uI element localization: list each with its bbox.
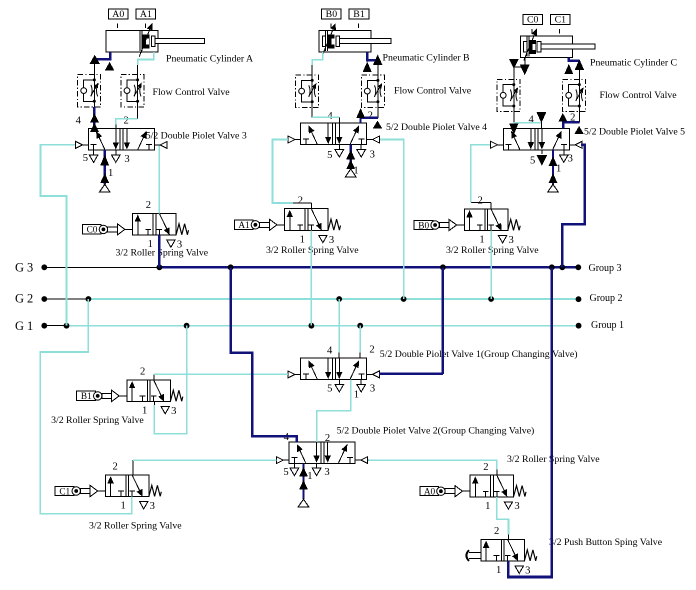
flow arrow V5 port4 1 [509,124,518,135]
label 3/2 Roller Spring Valve (C1) [89,521,182,532]
svg-text:3/2 Roller Spring Valve: 3/2 Roller Spring Valve [446,245,539,256]
wire G3 to push button port 1 [508,267,552,577]
svg-text:G 2: G 2 [15,291,33,305]
flow arrow cyl C right 2 [575,59,584,70]
valve V2 port 1 supply wire [302,463,304,499]
node G3 dots [41,264,581,270]
svg-text:Pneumatic Cylinder B: Pneumatic Cylinder B [383,53,471,64]
svg-text:3: 3 [329,235,334,246]
valve V4 compressed air source [345,169,356,177]
svg-text:1: 1 [307,471,312,482]
wire C0 port1 to G3 [158,235,160,267]
svg-text:3/2 Roller Spring Valve: 3/2 Roller Spring Valve [116,247,209,258]
valve V2 exhaust port 5 [290,463,299,475]
wire cylinder C right port to FCV [569,57,580,60]
svg-text:1: 1 [300,234,305,245]
svg-text:C1: C1 [555,15,567,26]
svg-text:4: 4 [327,346,333,357]
svg-text:1: 1 [496,565,501,576]
flow control valve A-left [78,75,101,107]
wire B1 port2 to V1 left pilot [154,374,288,380]
svg-text:2: 2 [325,433,330,444]
wire B0 port2 stub [490,202,492,209]
wire FCV A-right upper stub [137,65,139,75]
svg-text:4: 4 [76,115,82,126]
valve B1 port labels [140,367,176,417]
push button valve port labels [494,526,530,576]
valve V2 port 1 flow arrow 2 [299,480,308,489]
svg-text:3: 3 [171,406,176,417]
svg-text:5/2 Double Piolet Valve 4: 5/2 Double Piolet Valve 4 [386,122,487,133]
flow arrow cyl B corner 1 [363,62,372,72]
svg-text:Group 1: Group 1 [591,320,624,331]
wire V5 right pilot to G3 [562,145,585,267]
svg-text:5: 5 [327,150,332,161]
valve V5 compressed air source [548,184,559,192]
3/2 roller spring valve A1 [234,209,340,243]
label Group 3 [589,263,622,274]
flow arrow cyl A corner 1 [90,55,100,64]
5/2 double pilot valve V1 body [288,358,380,380]
valve V3 port 1 flow arrow 1 [100,155,109,166]
label Pneumatic Cylinder C [590,58,677,69]
5/2 double pilot valve V4 body [288,123,380,145]
svg-text:G 3: G 3 [15,260,33,274]
valve V3 exhaust port 5 [89,150,98,162]
flow arrow V4 port2 1 [356,108,365,118]
svg-text:B0: B0 [326,9,338,20]
svg-text:5/2 Double Piolet Valve 2(Grou: 5/2 Double Piolet Valve 2(Group Changing… [337,425,535,436]
label Flow Control Valve A [153,87,231,98]
valve A1 port labels [298,196,334,246]
svg-text:2: 2 [298,196,303,207]
label 3/2 Push Button Sping Valve [549,537,663,548]
node G1 dots [41,323,581,329]
wire A0 port1 to PB port2 [497,497,509,540]
svg-text:1: 1 [485,501,490,512]
5/2 double pilot valve V2 body [276,442,368,464]
svg-text:1: 1 [120,501,125,512]
svg-text:2: 2 [369,345,374,356]
flow arrow cyl C left 1 [509,59,519,69]
svg-text:2: 2 [494,526,499,537]
label 3/2 Roller Spring Valve (A1) [266,245,359,256]
3/2 roller spring valve B0 [414,209,520,243]
wire FCV B-right to V4 port2 [361,118,378,123]
5/2 double pilot valve V5 body [490,129,582,151]
svg-text:C1: C1 [59,487,70,497]
valve V4 port 1 supply wire [350,145,352,170]
wire A1 port1 to G1 [310,231,312,326]
flow arrow V5 port4 2 [536,112,546,123]
svg-text:5/2 Double Piolet Valve 1(Grou: 5/2 Double Piolet Valve 1(Group Changing… [380,349,578,360]
wire V1 port1 to V2 port2 [317,380,351,442]
wire G1 to V3 left pilot [41,145,76,326]
wire A1 port2 to V4 left pilot [273,140,312,204]
flow control valve A-right [121,75,144,107]
svg-text:3: 3 [124,154,129,165]
wire C1 port2 to V2 left pilot [133,460,277,475]
valve V2 exhaust port 3 [312,463,321,475]
svg-text:3: 3 [370,150,375,161]
svg-text:3/2 Roller Spring Valve: 3/2 Roller Spring Valve [266,245,359,256]
wire A0 port2 to V2 right pilot [368,460,497,475]
pneumatic cylinder C [520,14,595,60]
valve C0 port labels [146,200,182,250]
valve V2 port labels [283,432,330,482]
3/2 roller spring valve B1 [77,380,183,414]
svg-text:1: 1 [354,390,359,401]
svg-text:Group 3: Group 3 [589,263,622,274]
wire B0 port2 to V5 left pilot [471,145,491,203]
flow arrow cyl B corner 2 [373,55,383,66]
flow arrow V5 port2 1 [558,113,567,122]
wire V4 port4 stub [339,117,341,123]
flow control valve C-right [563,79,586,111]
label G 1 [15,319,33,333]
valve V5 port 1 flow arrow 2 [549,173,558,183]
wire FCV C-left lower stub [513,112,515,123]
wire FCV A-right lower stub [137,107,139,119]
svg-text:2: 2 [140,367,145,378]
svg-text:Group 2: Group 2 [590,293,623,304]
svg-text:2: 2 [483,462,488,473]
svg-text:G 1: G 1 [15,319,33,333]
wire FCV C-left upper stub [513,71,515,80]
wire G1 to V1 port2 [359,326,361,358]
wire FCV C-right to V5 port2 [563,122,579,128]
flow control valve B-left [296,75,319,107]
wire cylinder B left port to FCV [312,52,323,65]
svg-text:5/2 Double Piolet Valve 5: 5/2 Double Piolet Valve 5 [584,127,685,138]
valve V3 exhaust port 3 [112,150,121,162]
svg-text:Pneumatic Cylinder C: Pneumatic Cylinder C [590,58,677,69]
label Flow Control Valve B [394,86,472,97]
valve V5 exhaust port 3 [560,150,569,162]
svg-text:A1: A1 [238,221,250,231]
wire A1 port2 stub [310,203,312,209]
svg-text:3: 3 [324,467,329,478]
label 5/2 Double Piolet Valve 2(Group Changing Valve) [337,425,535,436]
wire C0 port2 to V3 right pilot [158,146,160,214]
label Pneumatic Cylinder B [383,53,471,64]
flow arrow cyl A corner 2 [105,62,114,71]
label Pneumatic Cylinder A [166,54,253,65]
flow arrow V3 port4 2 [90,123,99,132]
flow arrow cyl C left 2 [520,65,530,76]
svg-text:3: 3 [150,501,155,512]
valve V4 exhaust port 5 [335,145,344,157]
group line G2 [44,298,578,300]
svg-text:5: 5 [530,156,535,167]
svg-text:A1: A1 [140,9,152,20]
svg-text:A0: A0 [424,488,436,498]
wire FCV C-right upper stub [578,61,580,80]
label 5/2 Double Piolet Valve 4 [386,122,487,133]
label G 3 [15,260,33,274]
group line G3 [44,266,578,268]
wire FCV A-left upper stub [93,63,95,74]
flow arrow V3 port4 1 [90,113,99,122]
svg-text:3/2 Roller Spring Valve: 3/2 Roller Spring Valve [51,415,144,426]
valve V2 port 1 flow arrow 1 [299,467,308,476]
flow control valve C-left [497,79,520,111]
flow arrow cyl C right 1 [564,64,573,74]
valve V3 port 1 flow arrow 2 [100,173,109,183]
wire cylinder C left port to FCV [514,57,525,70]
flow arrow V4 port2 2 [373,121,382,129]
valve V1 exhaust port 3 [357,380,366,392]
wire G3 to V2 port4 [231,267,297,442]
svg-text:C0: C0 [87,226,98,236]
flow arrow V5 port2 2 [575,126,584,134]
wire FCV C-right lower stub [578,112,580,123]
wire cylinder A left port to FCV [94,52,110,63]
wire FCV B-left lower stub [311,108,313,118]
svg-text:2: 2 [477,196,482,207]
svg-text:2: 2 [368,110,373,121]
svg-text:2: 2 [124,115,129,126]
pneumatic cylinder B [319,9,391,55]
wire V3 port4 to FCV A-left [93,107,95,129]
svg-text:3: 3 [568,154,573,165]
svg-text:B1: B1 [81,392,92,402]
wire FCV B-right upper stub [377,60,379,75]
group line G1 [44,325,578,327]
valve A0 port labels [483,462,519,512]
valve V1 port labels [327,345,375,401]
wire cylinder B right port to FCV [367,52,378,60]
valve V3 compressed air source [99,184,110,192]
wire B1 port1 to G1 [154,326,186,434]
wire FCV B-left to V4 port4 [312,116,339,118]
valve V5 port 1 supply wire [552,150,554,184]
valve V1 exhaust port 5 [335,380,344,392]
svg-text:Pneumatic Cylinder A: Pneumatic Cylinder A [166,54,253,65]
svg-text:C0: C0 [527,15,539,26]
wire G2 to V1 port4 [338,299,340,358]
svg-text:5: 5 [83,153,88,164]
svg-text:B0: B0 [418,221,429,231]
svg-text:4: 4 [284,432,290,443]
wire B0 port1 to G2 [490,231,492,299]
wire cylinder A right port to FCV [138,52,154,65]
valve V4 port labels [327,110,375,176]
svg-text:Flow Control Valve: Flow Control Valve [600,90,678,101]
wire FCV B-right lower stub [377,108,379,118]
label Group 1 [591,320,624,331]
3/2 roller spring valve A0 [420,475,526,509]
valve V5 port 1 flow arrow 1 [549,156,558,166]
svg-text:5/2 Double Piolet Valve 3: 5/2 Double Piolet Valve 3 [146,131,247,142]
wire G3 to V1 right pilot [379,267,443,374]
svg-text:Flow Control Valve: Flow Control Valve [153,87,231,98]
valve V4 exhaust port 3 [357,145,366,157]
wire V3 port2 stub [115,124,117,128]
valve C1 port labels [112,462,154,512]
label 3/2 Roller Spring Valve (A0) [507,454,600,465]
5/2 double pilot valve V3 body [75,129,167,151]
label Group 2 [590,293,623,304]
3/2 roller spring valve C1 [55,475,161,509]
valve V3 port 1 supply wire [103,150,105,184]
svg-text:3/2 Push Button Sping Valve: 3/2 Push Button Sping Valve [549,537,663,548]
svg-text:Flow Control Valve: Flow Control Valve [394,86,472,97]
svg-text:2: 2 [146,200,151,211]
valve V5 exhaust port 5 (flow) [537,150,548,166]
pneumatic cylinder A [106,9,205,57]
node G2 dots [41,296,581,302]
svg-text:B1: B1 [353,9,365,20]
svg-text:1: 1 [108,168,113,179]
valve V5 port labels [529,113,576,175]
wire V4 right pilot to G2 [380,140,404,300]
3/2 push button spring valve [466,539,536,573]
svg-text:5: 5 [283,467,288,478]
svg-text:3: 3 [525,566,530,577]
wire FCV B-left upper stub [311,65,313,75]
valve V2 compressed air source [298,499,309,507]
wire G2 to C1 port1 [40,299,132,514]
label 3/2 Roller Spring Valve (C0) [116,247,209,258]
label 5/2 Double Piolet Valve 1(Group Changing Valve) [380,349,578,360]
label 5/2 Double Piolet Valve 3 [146,131,247,142]
wire FCV A-right to V3 port2 [116,119,138,125]
svg-text:2: 2 [112,462,117,473]
svg-text:1: 1 [479,235,484,246]
svg-text:3/2 Roller Spring Valve: 3/2 Roller Spring Valve [89,521,182,532]
valve V3 port labels [76,115,130,179]
svg-text:3: 3 [370,384,375,395]
3/2 roller spring valve C0 [82,213,188,247]
valve V4 port 1 flow arrow 2 [346,160,355,170]
label 3/2 Roller Spring Valve (B0) [446,245,539,256]
svg-text:4: 4 [529,115,535,126]
svg-text:3/2 Roller Spring Valve: 3/2 Roller Spring Valve [507,454,600,465]
label 5/2 Double Piolet Valve 5 [584,127,685,138]
label Flow Control Valve C [600,90,678,101]
svg-text:5: 5 [327,384,332,395]
svg-text:A0: A0 [112,9,124,20]
valve V4 port 1 flow arrow 1 [346,150,355,160]
flow control valve B-right [361,75,384,107]
svg-text:3: 3 [514,501,519,512]
wire FCV C-left to V5 port4 [514,122,542,124]
wire V5 port4 stub [540,123,542,129]
label G 2 [15,291,33,305]
valve B0 port labels [477,196,513,246]
label 3/2 Roller Spring Valve (B1) [51,415,144,426]
